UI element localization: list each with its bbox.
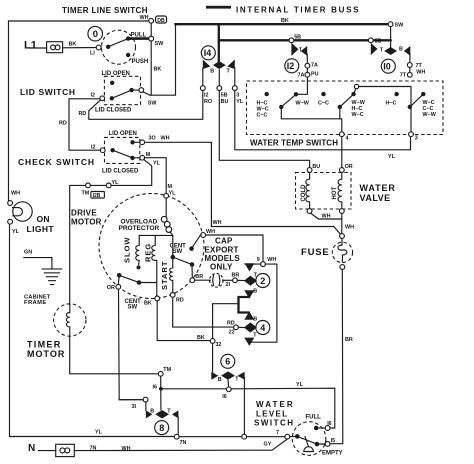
svg-text:DRIVE: DRIVE — [71, 209, 97, 218]
wire PULL to SW (heavy) — [128, 37, 149, 40]
node 7T WH circle — [407, 72, 412, 77]
wire valve commons join — [311, 213, 341, 219]
wire to connector 2 diamond — [237, 279, 246, 281]
svg-text:BU: BU — [221, 99, 229, 105]
svg-text:TIMER: TIMER — [27, 340, 62, 350]
contact empty dot — [315, 442, 320, 447]
blade lower cent sw — [119, 275, 139, 282]
wire neutral line — [39, 450, 56, 452]
svg-text:SW: SW — [395, 23, 405, 29]
node SW circle — [149, 36, 154, 41]
connector 4 triangle T — [244, 338, 254, 346]
wire BK to 32 junction — [157, 301, 210, 341]
svg-text:GY: GY — [264, 441, 272, 447]
connector 12 triangle left — [301, 46, 307, 56]
wire BU down and to water valve cold — [219, 91, 309, 168]
wire M branch to timer motor via TM plugs — [111, 159, 152, 185]
node 3I circle — [143, 397, 148, 402]
wire 3I down to connector 8 B — [145, 402, 147, 411]
node 5B circle (10) — [368, 38, 373, 43]
svg-text:I0: I0 — [383, 61, 391, 71]
wire RD to 22 connector — [173, 297, 234, 327]
svg-text:MOTOR: MOTOR — [71, 218, 102, 227]
wire SW up to WH junction — [150, 23, 152, 36]
svg-text:YL: YL — [95, 429, 103, 435]
connector 2 diamond — [244, 276, 257, 286]
svg-text:WH: WH — [122, 446, 131, 452]
wire motor winding rail — [139, 234, 173, 236]
svg-text:LID CLOSED: LID CLOSED — [102, 169, 139, 175]
contact PUSH dot — [126, 53, 130, 57]
contact lid closed dot — [129, 88, 133, 92]
switch CHECK SWITCH dashed box — [105, 137, 140, 163]
wire pivots rail to terminal 4 — [281, 107, 342, 132]
contact check lid closed dot — [130, 156, 134, 160]
wire terminal 4 OR to valve — [341, 137, 343, 168]
node 3 YL circle — [232, 86, 237, 91]
node WH junction circle — [149, 18, 154, 23]
svg-text:7A: 7A — [298, 73, 305, 79]
contact check lid open dot — [130, 140, 134, 144]
connector 8 diamond — [155, 410, 169, 418]
svg-text:W−C: W−C — [352, 112, 364, 118]
svg-text:22: 22 — [229, 330, 235, 336]
svg-text:LID SWITCH: LID SWITCH — [20, 87, 76, 97]
wire neutral to GY riser — [74, 439, 287, 451]
connector 8 triangle T — [172, 410, 179, 418]
switch timer line switch (dashed circle) — [102, 30, 136, 64]
svg-text:3O: 3O — [149, 136, 156, 142]
svg-text:6: 6 — [225, 357, 230, 367]
connector 10 triangle — [371, 43, 378, 55]
svg-text:LID OPEN: LID OPEN — [109, 131, 137, 137]
coil timer motor winding — [66, 304, 69, 336]
svg-text:WH: WH — [11, 191, 20, 197]
svg-text:I2: I2 — [91, 145, 96, 151]
svg-text:C−C: C−C — [257, 113, 268, 119]
svg-text:B: B — [210, 69, 214, 75]
svg-text:B: B — [253, 289, 257, 295]
svg-text:ONLY: ONLY — [210, 263, 233, 272]
contact lid open dot — [110, 81, 114, 85]
blade L1-PULL — [108, 39, 128, 47]
svg-text:CAP: CAP — [215, 237, 233, 246]
svg-text:START: START — [160, 261, 169, 290]
connector 6 triangle B — [211, 372, 218, 380]
wire REG to BK terminal — [155, 260, 158, 296]
terminal I2 check switch — [100, 148, 105, 153]
svg-text:I6: I6 — [153, 385, 158, 391]
wire BR fuse to water level switch — [330, 269, 343, 443]
capacitor C (export models) — [195, 279, 211, 281]
wire inner link to right — [359, 87, 411, 105]
svg-text:BK: BK — [154, 67, 162, 73]
terminal 3O — [140, 140, 145, 145]
svg-text:PROTECTOR: PROTECTOR — [119, 225, 160, 232]
svg-text:7T: 7T — [416, 63, 423, 69]
node 5B circle (12) — [289, 38, 294, 43]
node 15 terminal — [325, 442, 330, 447]
timer cam circle 6 — [221, 354, 235, 368]
node temp inner circle — [354, 84, 358, 88]
svg-text:EXPORT: EXPORT — [205, 245, 239, 254]
blade cent sw closed — [173, 257, 192, 264]
svg-text:BK: BK — [69, 42, 77, 48]
node 7N circle on YL line — [174, 434, 179, 439]
wire cent closed to BR terminal — [191, 265, 193, 278]
svg-text:RD: RD — [227, 320, 235, 326]
svg-text:PUSH: PUSH — [132, 59, 149, 65]
svg-text:WH: WH — [267, 257, 276, 263]
wire SW down BK to lid switch output — [150, 41, 152, 95]
wire 8 T down to 7N circle — [177, 417, 179, 434]
svg-text:5B: 5B — [375, 39, 382, 45]
blade water level to empty — [297, 436, 317, 444]
svg-text:I6: I6 — [327, 421, 332, 427]
svg-text:BR: BR — [195, 274, 203, 280]
svg-text:FUSE: FUSE — [301, 247, 330, 258]
wire top WH line — [9, 20, 151, 22]
svg-text:RD: RD — [59, 121, 67, 127]
svg-text:M: M — [168, 184, 173, 190]
diaphragm dome — [304, 447, 314, 452]
svg-text:PU: PU — [311, 72, 319, 78]
svg-text:WH: WH — [213, 220, 222, 226]
node PU circle — [305, 72, 310, 77]
contact dot H-C — [394, 92, 398, 96]
coil REG winding — [152, 235, 156, 260]
wire PU riser into box — [298, 77, 307, 94]
terminal 7 — [285, 434, 290, 439]
node terminal 4 — [339, 132, 344, 137]
terminal RD motor — [170, 293, 175, 298]
connector 12 triangle — [291, 43, 298, 56]
svg-text:I2: I2 — [91, 93, 96, 99]
svg-text:L1: L1 — [24, 40, 37, 52]
svg-text:B: B — [399, 47, 403, 53]
svg-text:YL: YL — [388, 154, 396, 160]
svg-text:3: 3 — [415, 136, 418, 142]
wire 12 to 7A — [306, 54, 308, 63]
svg-text:SLOW: SLOW — [123, 237, 132, 264]
wire 14 diamond to BU circle — [218, 70, 220, 86]
svg-text:I2B: I2B — [93, 193, 101, 199]
node 5B BU circle — [217, 86, 222, 91]
connector 2 triangle T — [245, 263, 255, 271]
contact lower pivot dot — [117, 273, 122, 278]
contact lower closed dot — [137, 280, 142, 285]
timer cam circle 4 — [256, 321, 270, 335]
connector 2 triangle B — [244, 290, 254, 298]
node BU circle valve — [307, 168, 312, 173]
svg-text:SW: SW — [128, 304, 138, 310]
switch temp contact 2 — [338, 105, 342, 109]
wire 3O WH to fuse run riser — [145, 142, 342, 236]
connector 10 diamond — [384, 47, 397, 55]
svg-text:5B: 5B — [221, 93, 228, 99]
node YL inline connector — [106, 183, 111, 188]
svg-text:RD: RD — [79, 111, 87, 117]
svg-text:0: 0 — [93, 29, 98, 40]
svg-text:LID CLOSED: LID CLOSED — [95, 108, 132, 114]
svg-text:SW: SW — [155, 41, 165, 47]
blade lid switch — [112, 90, 132, 98]
svg-text:RD: RD — [176, 298, 184, 304]
contact pivot check — [110, 148, 114, 152]
svg-text:I2: I2 — [204, 93, 209, 99]
fuse element — [338, 238, 347, 261]
node terminal 3 — [409, 132, 414, 137]
svg-text:B: B — [218, 377, 222, 383]
svg-text:FRAME: FRAME — [24, 300, 47, 306]
svg-text:WATER: WATER — [256, 400, 295, 409]
legend bus sample line — [206, 6, 231, 9]
node 16 terminal — [325, 426, 330, 431]
node 7A circle — [305, 63, 310, 68]
node 16 junction dot — [159, 387, 163, 391]
connector plug L1 — [47, 42, 63, 53]
svg-text:OR: OR — [107, 285, 115, 291]
wire L1 feed — [29, 47, 47, 49]
svg-text:TM: TM — [163, 367, 171, 373]
valve WATER VALVE dashed box — [296, 173, 352, 210]
svg-text:H−C: H−C — [386, 101, 397, 107]
svg-text:32: 32 — [215, 342, 221, 348]
svg-text:SW: SW — [173, 249, 183, 255]
svg-text:TIMER LINE SWITCH: TIMER LINE SWITCH — [62, 6, 148, 15]
contact cent open dot — [189, 246, 194, 251]
node I2 RO circle — [200, 86, 205, 91]
connector box DB — [156, 16, 167, 23]
svg-text:B: B — [150, 408, 154, 414]
svg-text:4: 4 — [346, 136, 349, 142]
terminal OR motor — [116, 284, 121, 289]
svg-text:BU: BU — [312, 164, 320, 170]
svg-text:RO: RO — [204, 99, 212, 105]
wire heavy jumper 2 to 4 — [239, 297, 249, 313]
svg-text:YL: YL — [12, 229, 20, 235]
svg-text:WH: WH — [206, 229, 215, 235]
svg-text:ON: ON — [37, 214, 50, 224]
svg-text:I4: I4 — [204, 48, 212, 58]
timer cam circle 10 — [381, 59, 395, 73]
svg-text:REG: REG — [144, 243, 153, 262]
wire cent open to WH terminal — [192, 233, 202, 248]
svg-text:9: 9 — [257, 257, 260, 263]
connector box 12B — [91, 192, 105, 199]
wire 14 B to RO circle — [202, 68, 204, 86]
svg-text:7T: 7T — [400, 73, 407, 79]
node fuse top circle — [340, 234, 345, 239]
svg-text:I2: I2 — [287, 61, 295, 71]
contact cent closed dot — [190, 262, 195, 267]
wire lid output to bus riser — [143, 24, 176, 95]
contact PULL dot — [126, 36, 130, 40]
contact dot A — [265, 92, 269, 96]
svg-text:8: 8 — [159, 423, 164, 433]
wire diamond 6 to 16 circle — [227, 380, 230, 387]
svg-text:TM: TM — [82, 191, 90, 197]
svg-text:SW: SW — [148, 101, 158, 107]
svg-text:YL: YL — [296, 382, 304, 388]
svg-text:LI: LI — [90, 51, 95, 57]
svg-text:BR: BR — [345, 337, 353, 343]
svg-text:WH: WH — [140, 15, 149, 21]
svg-text:N: N — [28, 443, 35, 454]
contact pivot — [106, 45, 110, 49]
svg-text:7N: 7N — [90, 445, 97, 451]
connector 10 triangle left — [404, 46, 410, 56]
svg-text:M: M — [146, 152, 151, 158]
svg-text:YL: YL — [236, 99, 244, 105]
wire pivot to OR terminal — [117, 275, 120, 284]
wire YL down and right to temp switch 3 — [235, 91, 411, 150]
svg-text:SWITCH: SWITCH — [254, 419, 295, 428]
svg-text:WH: WH — [416, 69, 425, 75]
connector 6 diamond — [221, 371, 235, 379]
svg-text:BK: BK — [281, 18, 289, 24]
wire OR to 3I connector — [119, 289, 144, 400]
svg-text:CHECK SWITCH: CHECK SWITCH — [18, 157, 95, 167]
svg-text:WATER: WATER — [360, 183, 396, 193]
svg-text:7: 7 — [276, 430, 279, 436]
terminal WH motor — [201, 233, 206, 238]
terminal BK motor — [155, 296, 160, 301]
contact pivot water level — [295, 434, 300, 439]
connector 8 triangle B — [146, 410, 153, 418]
wire buss 5B branch (heavy) — [219, 24, 391, 40]
node 16 circle — [226, 387, 231, 392]
wire motor WH to 9 WH — [206, 235, 263, 262]
svg-text:LID OPEN: LID OPEN — [102, 71, 130, 77]
switch temp contact 3 — [408, 105, 412, 109]
terminal I2 lid switch — [100, 96, 105, 101]
terminal L1 — [96, 45, 101, 50]
wire left border lower (YL) — [10, 223, 177, 437]
timer cam circle 2 — [256, 274, 270, 288]
contact pivot lid — [110, 96, 114, 100]
svg-text:WH: WH — [322, 213, 331, 219]
connector 14 diamond — [213, 61, 226, 69]
wire pivot3 to terminal 3 — [410, 107, 412, 132]
connector 4 diamond — [244, 322, 257, 332]
svg-text:EMPTY: EMPTY — [322, 450, 343, 456]
overload protector — [165, 198, 167, 217]
coil START winding — [170, 257, 173, 292]
terminal YL drive motor — [164, 193, 169, 198]
wire M to motor YL terminal — [145, 158, 167, 194]
svg-text:2I: 2I — [226, 282, 231, 288]
timer cam circle 12 — [285, 59, 299, 73]
switch LID SWITCH dashed box — [104, 76, 140, 104]
svg-text:YL: YL — [153, 160, 161, 166]
wire timer motor to TM terminal — [70, 336, 159, 374]
wire plug to L1 terminal — [63, 47, 97, 49]
wire SW down to connector 10 — [390, 27, 392, 47]
svg-text:INTERNAL TIMER BUSS: INTERNAL TIMER BUSS — [236, 5, 360, 14]
contact dot B — [321, 92, 325, 96]
node slow tap dot — [137, 265, 141, 269]
svg-text:5B: 5B — [294, 35, 301, 41]
svg-text:3: 3 — [236, 93, 239, 99]
motor DRIVE MOTOR dashed circle — [99, 194, 204, 299]
svg-text:W−W: W−W — [296, 101, 310, 107]
wire lower cent to REG line — [139, 282, 157, 284]
node BR 2I connector circle — [233, 278, 238, 283]
timer cam circle 14 — [201, 46, 215, 60]
node SW top right — [388, 22, 393, 27]
svg-text:DB: DB — [157, 18, 165, 24]
wire 10 to 7T — [409, 54, 411, 63]
wire 6 T down to 7N line — [243, 378, 245, 435]
wire rail to cent pivot — [172, 235, 174, 257]
svg-text:MOTOR: MOTOR — [27, 349, 65, 359]
svg-text:BK: BK — [197, 335, 205, 341]
switch temp contact 1 — [279, 105, 283, 109]
node fuse bottom circle — [340, 265, 345, 270]
svg-text:HOT: HOT — [332, 187, 338, 200]
node RD 22 circle — [234, 325, 239, 330]
connector 4 triangle B — [244, 311, 254, 319]
terminal BR motor — [190, 278, 195, 283]
connector 6 triangle T — [238, 372, 245, 380]
wire 14 T to YL circle — [234, 68, 236, 86]
terminal M — [140, 155, 145, 160]
svg-text:WH: WH — [345, 225, 354, 231]
node valve WH left — [307, 209, 312, 214]
timer cam circle 0 — [88, 26, 103, 41]
motor TIMER MOTOR dashed circle — [54, 304, 86, 336]
wire RD from lid I2 down to RO run — [89, 90, 203, 119]
svg-text:LEVEL: LEVEL — [256, 409, 288, 418]
svg-text:I6: I6 — [222, 394, 227, 400]
svg-text:I5: I5 — [331, 438, 336, 444]
svg-text:WH: WH — [161, 136, 170, 142]
terminal SW lid output — [139, 88, 144, 93]
svg-text:OR: OR — [345, 164, 353, 170]
connector plug N — [56, 444, 75, 456]
svg-text:FULL: FULL — [306, 414, 322, 420]
connector 14 triangle T — [227, 60, 235, 70]
node 9 WH circle — [261, 262, 266, 267]
svg-text:W−W: W−W — [423, 112, 437, 118]
svg-text:7N: 7N — [180, 440, 187, 446]
wire I2 parallel feed to check switch — [69, 99, 100, 150]
svg-text:BK: BK — [144, 301, 152, 307]
node TM inline connector — [86, 183, 91, 188]
node 32 junction circle — [210, 339, 215, 344]
node OR circle valve — [339, 168, 344, 173]
svg-text:C−C: C−C — [318, 101, 329, 107]
svg-text:LIGHT: LIGHT — [27, 224, 55, 234]
svg-text:WATER TEMP SWITCH: WATER TEMP SWITCH — [250, 138, 338, 147]
wire 32 tap to jumper — [213, 304, 239, 340]
svg-text:BR: BR — [232, 272, 240, 278]
svg-text:GN: GN — [24, 250, 32, 256]
wire 32 down to connector 6 — [212, 343, 214, 371]
svg-text:VALVE: VALVE — [360, 193, 391, 203]
wire connector block bracket — [245, 263, 261, 265]
node 7T circle — [407, 63, 412, 68]
wire RD to diamond 4 — [238, 326, 244, 328]
connector 14 triangle B — [203, 60, 211, 70]
svg-text:2: 2 — [260, 276, 265, 286]
svg-text:7A: 7A — [311, 63, 318, 69]
wire terminal 7 to pivot — [290, 435, 298, 437]
contact full dot — [314, 426, 319, 431]
wire left border (WH) — [8, 21, 10, 201]
coil SLOW winding — [136, 235, 139, 264]
